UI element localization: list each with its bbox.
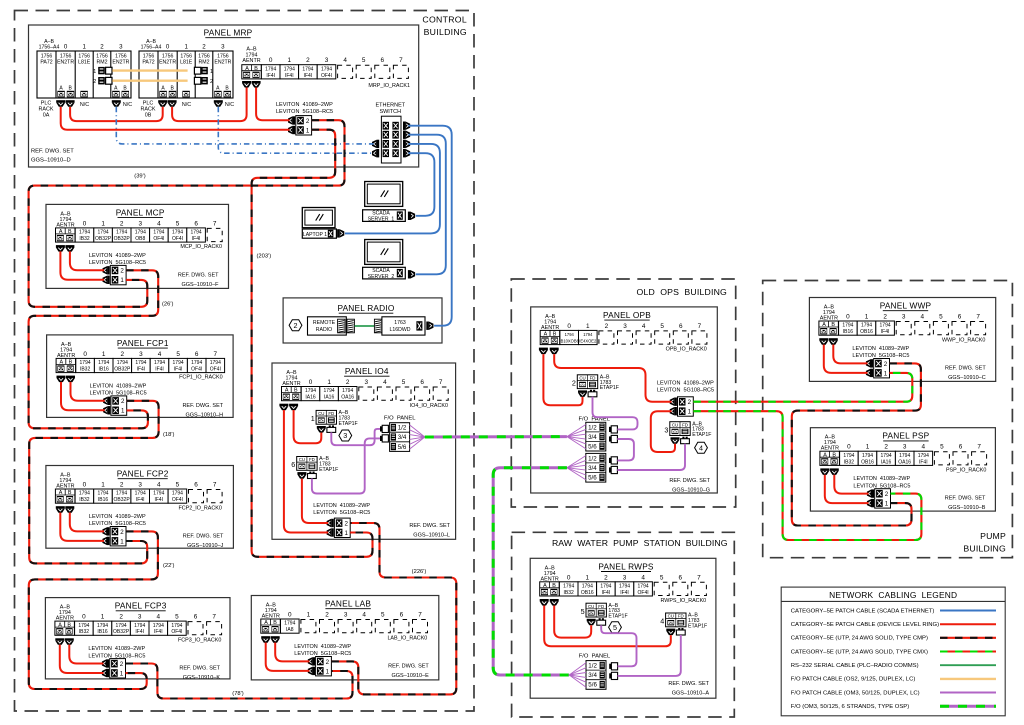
svg-text:REF. DWG. SET: REF. DWG. SET [409, 523, 450, 529]
svg-text:L16DWD: L16DWD [389, 327, 410, 333]
svg-text:MCP_IO_RACK0: MCP_IO_RACK0 [180, 244, 222, 250]
svg-text:3: 3 [664, 425, 668, 434]
svg-text:1/2: 1/2 [588, 455, 597, 462]
svg-text:5: 5 [660, 574, 664, 581]
IO4 module 1794 IA16 (slot 0) [301, 387, 320, 401]
PANEL MCP module 1794 OF4I (slot 4) [150, 228, 169, 242]
svg-text:CATEGORY–5E (UTP, 24 AWG SOLID: CATEGORY–5E (UTP, 24 AWG SOLID, TYPE CMX… [791, 649, 928, 655]
PANEL PSP AENTR port B connector [830, 468, 839, 475]
svg-text:PANEL FCP3: PANEL FCP3 [115, 601, 167, 611]
svg-text:1794: 1794 [324, 388, 335, 394]
wire purple OPB ETAP3 FO to g2 3/4 [617, 444, 685, 470]
PANEL PSP empty slot 7 [972, 452, 987, 465]
svg-text:2: 2 [120, 482, 124, 489]
svg-text:0: 0 [567, 323, 571, 330]
svg-text:PANEL WWP: PANEL WWP [880, 301, 932, 311]
svg-text:2: 2 [100, 44, 104, 51]
IO4 fiber patch panel [390, 423, 410, 452]
OPB 1794 AENTR adapter [540, 330, 560, 344]
SCADA SERVER 1 plug [408, 212, 415, 220]
PANEL MCP jack plug port 1 [103, 276, 110, 284]
wire red DLR MRP AENTR-B to jack2 [256, 88, 290, 121]
MRP module 1794 IF4I (slot 2) [299, 65, 318, 79]
svg-text:LAB_IO_RACK0: LAB_IO_RACK0 [387, 635, 427, 641]
svg-text:1794: 1794 [861, 323, 872, 329]
RWPS module 1794 IF4I (slot 3) [615, 582, 634, 596]
svg-text:SERVER 2: SERVER 2 [368, 274, 395, 280]
wire red DLR rackB-B to MRP AENTR-A [172, 88, 247, 122]
svg-text:4: 4 [641, 574, 645, 581]
svg-text:OPB_IO_RACK0: OPB_IO_RACK0 [666, 347, 707, 353]
wire RS-232 serial radio link [355, 325, 375, 327]
svg-text:LEVITON 41089–2WP: LEVITON 41089–2WP [313, 503, 370, 509]
PANEL FCP3 empty slot 7 [207, 622, 222, 635]
svg-text:ETHERNET: ETHERNET [375, 103, 405, 109]
svg-text:2: 2 [120, 529, 124, 536]
svg-text:4: 4 [699, 443, 703, 452]
svg-text:OB16: OB16 [581, 590, 594, 596]
svg-text:1/2: 1/2 [588, 424, 597, 431]
svg-text:0: 0 [846, 314, 850, 321]
svg-text:GGS–10910–F: GGS–10910–F [182, 282, 220, 288]
PANEL FCP3 1794 AENTR adapter [55, 621, 75, 635]
svg-text:BUILDING: BUILDING [424, 27, 467, 37]
PANEL FCP1 drawing reference [182, 403, 223, 419]
svg-text:6: 6 [958, 314, 962, 321]
wire CMP MRP jack1 to IO4 jack1 (203 ft) [252, 130, 373, 557]
svg-text:3: 3 [119, 44, 123, 51]
MRP module 1794 IF4I (slot 1) [280, 65, 299, 79]
svg-text:1794: 1794 [171, 623, 182, 629]
svg-text:6: 6 [194, 482, 198, 489]
svg-text:REMOTE: REMOTE [313, 320, 336, 326]
svg-text:2: 2 [884, 444, 888, 451]
1763 ethernet plug [426, 322, 433, 330]
svg-text:IA16: IA16 [881, 459, 892, 465]
PANEL FCP2 empty slot 6 [189, 490, 204, 503]
svg-text:PANEL MRP: PANEL MRP [204, 28, 253, 38]
panel PANEL LAB title [325, 599, 371, 609]
PANEL LAB empty slot 2 [320, 620, 335, 633]
PANEL PSP Leviton jack block [875, 489, 891, 508]
svg-text:1: 1 [121, 408, 125, 415]
LAPTOP plug [337, 229, 344, 237]
PANEL LAB drawing reference [388, 664, 429, 680]
wire blue SCADA switch row1 to PANEL RADIO 1763 [408, 126, 451, 326]
PANEL WWP empty slot 4 [915, 322, 930, 335]
svg-text:1794: 1794 [843, 453, 854, 459]
svg-text:IF4I: IF4I [919, 459, 928, 465]
svg-text:IF4I: IF4I [155, 367, 164, 373]
svg-text:OLD OPS BUILDING: OLD OPS BUILDING [637, 287, 728, 297]
PANEL FCP1 module 1794 IF4I (slot 5) [169, 358, 188, 372]
svg-text:F/O PANEL: F/O PANEL [384, 415, 416, 421]
OPB Leviton labels [657, 381, 714, 394]
PANEL FCP2 empty slot 7 [207, 490, 222, 503]
svg-text:PANEL LAB: PANEL LAB [325, 599, 371, 609]
svg-text:1794: 1794 [565, 332, 575, 337]
wire red PANEL PSP AENTR-A to jack 1 [825, 475, 869, 503]
PANEL WWP jack plug port 1 [866, 369, 873, 377]
RWPS module 1794 IB32 (slot 0) [559, 582, 578, 596]
svg-text:PANEL FCP1: PANEL FCP1 [117, 338, 169, 348]
svg-text:7: 7 [213, 482, 217, 489]
label PLC RACK 0A [39, 101, 54, 119]
svg-text:IB32: IB32 [564, 590, 575, 596]
svg-text:7: 7 [439, 379, 443, 386]
wire red PANEL FCP1 AENTR-B to jack 2 [71, 382, 105, 401]
svg-text:1794: 1794 [117, 360, 128, 366]
svg-text:2: 2 [119, 614, 123, 621]
PANEL MCP module 1794 IF4I (slot 6) [187, 228, 206, 242]
svg-text:1794: 1794 [97, 623, 108, 629]
svg-text:1: 1 [865, 314, 869, 321]
PANEL LAB empty slot 4 [357, 620, 372, 633]
svg-text:0: 0 [83, 482, 87, 489]
OPB empty slot 3 [618, 331, 633, 344]
OPB adapter label A-B 1794 AENTR [541, 314, 559, 331]
svg-text:0: 0 [269, 57, 273, 64]
svg-text:GGS–10910–H: GGS–10910–H [185, 412, 223, 418]
PLC RACK 0A module 1756 L81E (slot 1) [78, 54, 91, 66]
svg-text:5: 5 [613, 623, 617, 632]
svg-text:ETAP1F: ETAP1F [688, 623, 707, 629]
svg-text:PANEL MCP: PANEL MCP [116, 207, 165, 217]
svg-text:IB16: IB16 [97, 629, 108, 635]
MRP AENTR port B connector [252, 81, 261, 88]
IO4 empty slot 6 [415, 387, 430, 400]
IO4 ETAP device 1 [311, 410, 358, 433]
svg-text:REF. DWG. SET: REF. DWG. SET [668, 681, 709, 687]
panel PANEL LAB enclosure [251, 596, 438, 680]
svg-text:3: 3 [903, 444, 907, 451]
svg-text:1794: 1794 [899, 453, 910, 459]
svg-text:OB32P: OB32P [114, 367, 131, 373]
svg-text:RM2: RM2 [199, 60, 210, 66]
svg-text:CU: CU [668, 614, 674, 619]
svg-text:ETAP1F: ETAP1F [608, 614, 627, 620]
svg-text:LEVITON 41089–2WP: LEVITON 41089–2WP [89, 514, 146, 520]
wire CMP WWP jack2 to PSP jack1 [792, 363, 921, 525]
PANEL PSP empty slot 6 [953, 452, 968, 465]
rack 0A EN2TR0-A field connector [56, 100, 65, 107]
svg-text:1: 1 [326, 668, 330, 675]
svg-text:RS–232 SERIAL CABLE (PLC–RADIO: RS–232 SERIAL CABLE (PLC–RADIO COMMS) [791, 663, 919, 669]
svg-text:3: 3 [139, 220, 143, 227]
svg-text:1: 1 [344, 530, 348, 537]
IO4 drawing reference [409, 523, 450, 539]
MRP empty slot 7 [393, 65, 408, 78]
PANEL FCP2 1794 AENTR adapter [55, 489, 75, 503]
svg-text:LEVITON 41089–2WP: LEVITON 41089–2WP [657, 381, 714, 387]
wire blue SCADA rack 0B EN2TR3 to switch [218, 107, 373, 154]
wire purple RWPS ETAP4 FO to fopanel 3/4 [618, 635, 681, 676]
svg-text:1794: 1794 [153, 491, 164, 497]
svg-text:GGS–10910–C: GGS–10910–C [948, 375, 986, 381]
svg-text:IF4I: IF4I [154, 629, 163, 635]
legend sample line cmp [940, 637, 996, 639]
svg-text:1794: 1794 [191, 360, 202, 366]
svg-text:0A: 0A [43, 113, 50, 119]
legend sample line green [940, 664, 996, 666]
svg-text:1794: 1794 [79, 230, 90, 236]
PANEL MCP Leviton labels [89, 253, 146, 266]
svg-text:IF4I: IF4I [304, 73, 313, 79]
svg-text:1: 1 [101, 220, 105, 227]
svg-text:1: 1 [866, 444, 870, 451]
PANEL FCP1 module 1794 OF4I (slot 7) [206, 358, 225, 372]
svg-text:OF4I: OF4I [172, 236, 183, 242]
PANEL FCP2 Leviton jack block [110, 527, 126, 546]
svg-text:FD: FD [309, 457, 315, 462]
RWPS module 1794 OF4I (slot 4) [634, 582, 653, 596]
wire red PANEL MCP AENTR-A to jack 1 [60, 251, 104, 279]
wire CMP LAB jack2 to IO4 jack2 (226 ft) [331, 523, 456, 694]
svg-text:5/6: 5/6 [588, 475, 597, 482]
svg-text:4: 4 [158, 351, 162, 358]
svg-text:4: 4 [343, 57, 347, 64]
wire purple OPB g1 3/4 to g2 1/2 [617, 439, 634, 460]
PLC RACK 0B module 1756 EN2TR (slot 0) [159, 54, 176, 66]
panel IO4 title [344, 366, 389, 376]
svg-text:1: 1 [885, 501, 889, 508]
svg-text:RADIO: RADIO [316, 327, 332, 333]
PANEL LAB Leviton labels [294, 644, 351, 657]
svg-text:PANEL PSP: PANEL PSP [882, 431, 929, 441]
svg-text:7: 7 [212, 614, 216, 621]
svg-text:IB16: IB16 [99, 367, 110, 373]
legend box NETWORK CABLING LEGEND [781, 587, 1005, 716]
svg-text:1: 1 [306, 127, 310, 134]
svg-text:1794: 1794 [881, 453, 892, 459]
svg-text:3: 3 [623, 323, 627, 330]
PANEL FCP3 module 1794 OF4I (slot 5) [168, 621, 187, 635]
svg-text:RAW WATER PUMP STATION BUI: RAW WATER PUMP STATION BUILDING [552, 538, 728, 548]
svg-text:6: 6 [381, 57, 385, 64]
svg-text:GGS–10910–A: GGS–10910–A [672, 691, 710, 697]
PANEL FCP2 module 1794 IF4I (slot 4) [150, 489, 169, 503]
PANEL WWP drawing reference [945, 366, 986, 382]
svg-text:IF4I: IF4I [135, 629, 144, 635]
PANEL FCP1 adapter label A-B 1794 AENTR [57, 342, 75, 359]
label PLC RACK 0B [141, 101, 156, 119]
OPB empty slot 4 [636, 331, 651, 344]
panel RADIO title [337, 303, 394, 313]
svg-text:1794: 1794 [98, 230, 109, 236]
OPB AENTR port A connector [539, 348, 548, 355]
OPB F/O connector g2 row 3/4 [609, 466, 617, 473]
PANEL WWP adapter label A-B 1794 AENTR [820, 305, 838, 322]
svg-text:0: 0 [83, 351, 87, 358]
OPB empty slot 7 [692, 331, 707, 344]
PANEL WWP AENTR port B connector [829, 338, 838, 345]
svg-text:2: 2 [884, 361, 888, 368]
PANEL FCP1 module 1794 IB16 (slot 1) [94, 358, 113, 372]
PLC RACK 0A L81E port [80, 91, 87, 98]
legend sample line blue [940, 610, 996, 612]
svg-text:IF4I: IF4I [620, 590, 629, 596]
PANEL LAB empty slot 5 [375, 620, 390, 633]
svg-text:1794: 1794 [600, 584, 611, 590]
svg-text:CU: CU [672, 422, 678, 427]
svg-text:0: 0 [82, 614, 86, 621]
PANEL FCP3 drawing reference [179, 666, 220, 682]
wire purple OPB ETAP2 FO to g1 1/2 [593, 397, 638, 430]
svg-text:L81E: L81E [78, 60, 91, 66]
svg-text:PSP_IO_RACK0: PSP_IO_RACK0 [946, 468, 986, 474]
PANEL PSP module 1794 IF4I (slot 4) [914, 451, 933, 465]
RWPS drawing reference [668, 681, 709, 697]
svg-text:1794: 1794 [153, 623, 164, 629]
svg-text:7: 7 [418, 612, 422, 619]
PANEL LAB module 1794 IA8 (slot 0) [281, 619, 300, 633]
PANEL WWP empty slot 7 [971, 322, 986, 335]
IO4 AENTR port B connector [289, 404, 298, 411]
rack 0B RM2 redundancy ports 1 2 [194, 67, 213, 85]
panel PANEL FCP3 enclosure [45, 598, 230, 679]
wire CMP FCP3 jack2 to LAB jack1 (78 ft) [126, 664, 353, 699]
svg-text:1794: 1794 [191, 230, 202, 236]
wire purple IO4 ETAP6 FO to fopanel 3/4 [312, 438, 380, 493]
PANEL LAB jack plug port 2 [308, 657, 315, 665]
wire CMX OPB jack2 to WWP jack1 (inter-building) [693, 373, 912, 402]
PANEL PSP empty slot 5 [934, 452, 949, 465]
svg-text:2: 2 [604, 574, 608, 581]
IO4 empty slot 7 [433, 387, 448, 400]
svg-text:6: 6 [959, 444, 963, 451]
ethernet switch left plugs [372, 140, 379, 158]
svg-text:0: 0 [166, 44, 170, 51]
svg-text:IF4I: IF4I [881, 329, 890, 335]
panel RADIO enclosure [283, 298, 442, 343]
PLC RACK 0B module 1756 EN2TR (slot 3) [214, 54, 231, 66]
building outline CONTROL BUILDING [15, 11, 475, 712]
svg-text:F/O (OM3, 50/125, 6 STRANDS, T: F/O (OM3, 50/125, 6 STRANDS, TYPE OSP) [791, 704, 909, 710]
svg-text:6: 6 [194, 220, 198, 227]
svg-text:5: 5 [939, 314, 943, 321]
PANEL MCP jack plug port 2 [103, 266, 110, 274]
PANEL FCP3 module 1794 IF4I (slot 4) [149, 621, 168, 635]
svg-text:RM2: RM2 [97, 60, 108, 66]
MRP AENTR port A connector [242, 81, 251, 88]
PANEL FCP3 Leviton labels [88, 646, 145, 659]
PANEL FCP1 AENTR port A connector [57, 376, 66, 383]
svg-text:MRP_IO_RACK1: MRP_IO_RACK1 [368, 83, 410, 89]
svg-text:(39'): (39') [134, 173, 145, 179]
PANEL PSP 1794 AENTR adapter [820, 451, 840, 465]
svg-text:REF. DWG. SET: REF. DWG. SET [388, 664, 429, 670]
building outline OLD OPS BUILDING [511, 279, 735, 507]
PLC RACK 0B EN2TR slot3 ports A B [214, 86, 231, 98]
svg-text:7: 7 [976, 314, 980, 321]
PANEL MCP 1794 AENTR adapter [56, 228, 76, 242]
svg-text:IB32: IB32 [80, 367, 91, 373]
svg-text:5: 5 [176, 220, 180, 227]
svg-text:BUILDING: BUILDING [963, 544, 1006, 554]
svg-text:IF4I: IF4I [174, 367, 183, 373]
svg-text:IF4I: IF4I [285, 73, 294, 79]
PLC RACK 0A module 1756 RM2 (slot 2) [96, 54, 108, 66]
svg-text:3: 3 [221, 44, 225, 51]
wire red PANEL FCP3 AENTR-B to jack 2 [69, 645, 103, 664]
legend sample line osp [940, 705, 996, 708]
svg-text:1794: 1794 [918, 453, 929, 459]
svg-text:4: 4 [383, 379, 387, 386]
RWPS module 1794 IF4I (slot 2) [597, 582, 616, 596]
wire red RWPS AENTR-B to ETAP5 CU [554, 606, 591, 638]
rack PLC RACK 0B label A-B 1756-A4 [141, 39, 162, 51]
svg-text:PA72: PA72 [40, 60, 52, 66]
PANEL MCP Leviton jack block [110, 265, 126, 284]
wire blue SCADA switch row2 to SCADA SERVER 2 [408, 135, 445, 275]
PANEL FCP3 module 1794 IB32 (slot 0) [75, 621, 94, 635]
svg-text:SWITCH: SWITCH [379, 109, 401, 115]
MRP jack plug port 2 [288, 116, 295, 124]
svg-text:1794: 1794 [172, 230, 183, 236]
REMOTE RADIO device [308, 317, 347, 335]
PANEL FCP2 AENTR port A connector [56, 506, 65, 513]
PLC RACK 0A module 1756 PA72 [40, 54, 52, 66]
svg-text:OA16: OA16 [898, 459, 911, 465]
svg-text:1794: 1794 [98, 360, 109, 366]
rack PLC RACK 0B chassis [139, 51, 233, 98]
PANEL MCP module 1794 OB32P (slot 1) [94, 228, 113, 242]
IO4 module 1794 OA16 (slot 2) [338, 387, 357, 401]
RWPS adapter label A-B 1794 AENTR [541, 565, 559, 582]
svg-text:1756–A4: 1756–A4 [141, 45, 162, 51]
PANEL FCP3 empty slot 6 [188, 622, 203, 635]
svg-text:2: 2 [325, 612, 329, 619]
PLC RACK 0A EN2TR slot3 ports A B [112, 86, 129, 98]
wire F/O OS2 patch RM2 channel 1 [112, 69, 187, 71]
svg-text:EN2TR: EN2TR [57, 60, 74, 66]
svg-text:2: 2 [605, 323, 609, 330]
svg-text:FCP3_IO_RACK0: FCP3_IO_RACK0 [178, 637, 221, 643]
wire red PANEL FCP3 AENTR-A to jack 1 [60, 645, 104, 673]
svg-text:1794: 1794 [210, 360, 221, 366]
svg-text:1794: 1794 [80, 360, 91, 366]
OPB module 1794 IE4XOE2 (slot 1) [579, 330, 598, 344]
svg-text:1794: 1794 [135, 230, 146, 236]
PANEL FCP3 jack plug port 1 [102, 669, 109, 677]
svg-text:1: 1 [586, 574, 590, 581]
wire red PANEL FCP2 AENTR-B to jack 2 [70, 513, 104, 532]
svg-text:3: 3 [138, 482, 142, 489]
svg-text:IO4_IO_RACK0: IO4_IO_RACK0 [410, 403, 448, 409]
svg-text:GGS–10910–E: GGS–10910–E [391, 673, 429, 679]
IO4 F/O connector row 3/4 [380, 435, 388, 442]
svg-text:1794: 1794 [284, 621, 295, 627]
svg-text:ETAP1F: ETAP1F [339, 421, 358, 427]
svg-text:1: 1 [101, 482, 105, 489]
svg-text:6: 6 [420, 379, 424, 386]
IO4 jack plug port 1 [327, 528, 334, 536]
svg-text:LEVITON 41089–2WP: LEVITON 41089–2WP [90, 383, 147, 389]
label PUMP BUILDING [963, 531, 1006, 554]
svg-text:CU: CU [588, 604, 594, 609]
svg-text:5/6: 5/6 [588, 443, 597, 450]
OPB jack plug port 2 [670, 398, 677, 406]
svg-text:6: 6 [679, 574, 683, 581]
svg-text:FCP1_IO_RACK0: FCP1_IO_RACK0 [179, 375, 222, 381]
svg-text:1794: 1794 [154, 360, 165, 366]
svg-text:LEVITON 5G108–RC5: LEVITON 5G108–RC5 [313, 510, 370, 516]
OPB Leviton jack block [678, 397, 694, 416]
wire red OPB AENTR-A to ETAP2 CU [543, 354, 582, 405]
PANEL WWP jack plug port 2 [866, 359, 873, 367]
svg-text:FD: FD [328, 411, 334, 416]
wire red RWPS AENTR-A to ETAP4 CU [544, 606, 671, 647]
